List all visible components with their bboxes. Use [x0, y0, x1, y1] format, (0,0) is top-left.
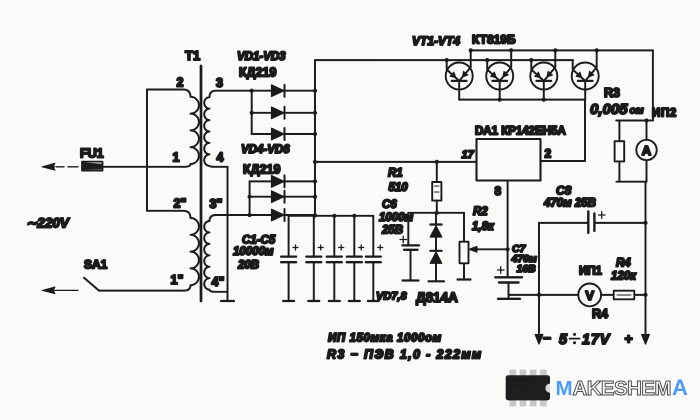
wire primary left vertical (pin2 to pin2")	[146, 90, 148, 211]
logo chip icon	[506, 370, 550, 407]
ammeter IP2	[636, 121, 656, 182]
svg-text:R3: R3	[604, 86, 620, 100]
DA1 pin 8 lead	[507, 181, 509, 277]
capacitor C8	[539, 211, 646, 233]
svg-text:2": 2"	[174, 197, 187, 211]
svg-text:FU1: FU1	[80, 147, 104, 161]
wire capacitor bank top rail	[289, 215, 374, 217]
op-amp style box IC DA1	[477, 139, 541, 181]
capacitor C3	[327, 216, 344, 301]
zener VD7	[430, 213, 442, 251]
wire collector rail	[471, 49, 653, 51]
svg-text:17V: 17V	[582, 332, 611, 348]
transistor VT4	[572, 50, 599, 99]
diode VD1	[252, 85, 315, 97]
svg-text:1,8к: 1,8к	[472, 221, 495, 233]
svg-text:5: 5	[559, 332, 568, 348]
ground bar at VD8	[429, 280, 445, 282]
svg-text:−: −	[543, 330, 551, 346]
diode VD5	[250, 191, 315, 203]
svg-text:R1: R1	[388, 168, 403, 180]
wire shunt bottom node	[616, 181, 646, 183]
svg-text:3: 3	[216, 76, 223, 90]
svg-text:V: V	[585, 288, 594, 303]
svg-text:20В: 20В	[237, 260, 259, 272]
zener VD8	[430, 251, 442, 281]
svg-text:2: 2	[545, 147, 552, 161]
capacitor C5	[366, 216, 383, 301]
svg-text:С8: С8	[556, 184, 572, 198]
wire emitter rail	[459, 99, 585, 101]
svg-text:R3 − ПЭВ 1,0 - 222мм: R3 − ПЭВ 1,0 - 222мм	[327, 348, 483, 362]
svg-text:1000м: 1000м	[379, 212, 414, 224]
svg-text:VD7,8: VD7,8	[376, 291, 407, 303]
svg-text:ИП1: ИП1	[579, 266, 603, 278]
svg-text:SA1: SA1	[84, 258, 108, 272]
diode VD6	[250, 209, 315, 221]
svg-text:120к: 120к	[611, 271, 637, 283]
fuse FU1	[80, 147, 104, 171]
wire rectifier plus bus	[314, 60, 316, 216]
svg-text:4": 4"	[212, 275, 225, 289]
node dot	[250, 89, 254, 93]
transformer T1 core	[200, 66, 203, 301]
svg-text:ИП 150мка 1000ом: ИП 150мка 1000ом	[328, 333, 442, 345]
svg-text:VT1-VT4: VT1-VT4	[412, 34, 460, 48]
resistor R4	[614, 291, 635, 300]
wire voltmeter line	[509, 294, 646, 296]
wire bus to DA1 pin 17	[315, 161, 477, 163]
T1 secondary winding II (pins 3"-4")	[204, 215, 249, 292]
svg-text:510: 510	[389, 182, 409, 194]
ground bar at T1 pin 4"	[221, 300, 234, 302]
svg-text:VD1-VD3: VD1-VD3	[237, 51, 286, 63]
svg-text:VD4-VD6: VD4-VD6	[241, 144, 290, 156]
capacitor C4	[347, 216, 364, 301]
svg-text:470м 25В: 470м 25В	[543, 198, 596, 210]
svg-text:DA1 КР142ЕН5А: DA1 КР142ЕН5А	[475, 126, 566, 138]
mains input arrow upper	[42, 163, 78, 170]
svg-text:0,005: 0,005	[590, 101, 628, 118]
wire plus bus down right edge	[645, 182, 647, 333]
capacitor C1	[281, 216, 298, 301]
ground bar at C6	[403, 279, 419, 281]
capacitor C2	[306, 216, 323, 301]
svg-text:КД219: КД219	[239, 66, 276, 80]
wire minus bus	[538, 223, 540, 333]
svg-text:R4: R4	[616, 258, 631, 270]
wire base rail	[315, 59, 573, 61]
output minus arrow	[535, 326, 543, 344]
svg-text:Д814А: Д814А	[416, 290, 458, 305]
svg-text:AKESHEM: AKESHEM	[573, 377, 671, 400]
wire SA1 to T1 pin1"	[99, 290, 184, 292]
ground at C7	[498, 295, 520, 299]
wire emitter rail down to DA1 pin 2	[541, 100, 586, 161]
svg-text:С1-С5: С1-С5	[242, 235, 276, 247]
resistor R1	[432, 162, 441, 213]
svg-text:∼220V: ∼220V	[26, 216, 70, 231]
wire upper diode group left vertical	[251, 91, 253, 134]
svg-text:8: 8	[495, 184, 502, 198]
diode VD4	[250, 175, 315, 187]
switch SA1	[43, 258, 108, 294]
svg-text:Т1: Т1	[185, 48, 200, 63]
wire pin4 down to common	[227, 167, 229, 301]
svg-text:+: +	[625, 331, 633, 347]
logo MAKESHEMA text	[556, 375, 689, 400]
svg-text:3": 3"	[210, 197, 223, 211]
svg-text:ИП2: ИП2	[652, 108, 677, 120]
svg-text:MAKESHEMA.COM: MAKESHEMA.COM	[510, 379, 539, 383]
diode VD3	[252, 128, 315, 140]
wire shunt top node	[616, 120, 653, 122]
T1 primary winding II (pins 2"-1")	[147, 211, 199, 291]
svg-text:R4: R4	[592, 307, 608, 321]
wire top rail down right bus	[652, 50, 654, 120]
wire FU1 to T1 pin1	[103, 166, 185, 168]
svg-text:А: А	[642, 143, 652, 158]
svg-text:ом: ом	[630, 105, 644, 117]
capacitor C6	[400, 213, 419, 281]
svg-text:16В: 16В	[517, 263, 537, 275]
resistor R3 shunt	[615, 121, 625, 182]
svg-text:КД219: КД219	[243, 163, 280, 177]
svg-text:M: M	[556, 377, 572, 400]
svg-text:SCHEMATICS: SCHEMATICS	[510, 383, 531, 387]
potentiometer R2	[460, 213, 508, 280]
svg-text:2: 2	[177, 76, 184, 90]
transistor VT3	[530, 50, 557, 99]
output plus arrow	[642, 326, 650, 344]
transistor VT2	[486, 50, 513, 99]
ground bar at R2	[458, 278, 471, 280]
transistor VT1	[446, 50, 473, 99]
svg-text:A: A	[672, 375, 688, 400]
svg-text:4: 4	[217, 151, 224, 165]
svg-text:25В: 25В	[381, 225, 403, 237]
svg-text:R2: R2	[473, 206, 488, 218]
svg-text:КТ819Б: КТ819Б	[472, 33, 516, 47]
voltmeter IP1	[578, 284, 601, 307]
diode VD2	[252, 107, 315, 119]
T1 primary winding I (pins 2-1)	[147, 90, 199, 167]
svg-text:1": 1"	[171, 273, 184, 287]
svg-text:10000м: 10000м	[233, 246, 274, 258]
T1 secondary winding I (pins 3-4)	[204, 91, 252, 167]
svg-text:1: 1	[173, 151, 180, 165]
wire reference node line	[408, 212, 464, 214]
capacitor C7	[495, 267, 522, 295]
wire lower diode group left vertical	[249, 181, 251, 215]
svg-text:С6: С6	[382, 199, 397, 211]
svg-text:17: 17	[462, 149, 475, 161]
